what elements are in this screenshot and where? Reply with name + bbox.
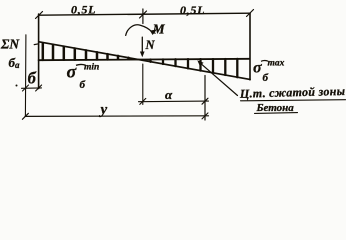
extension line at zero-stress point (142, 64, 144, 105)
svg-text:σ: σ (67, 62, 78, 82)
tick delta left (23, 85, 29, 91)
N arrowhead (140, 52, 145, 58)
svg-text:N: N (145, 38, 156, 52)
svg-text:Ц.т. сжатой зоны: Ц.т. сжатой зоны (239, 84, 346, 101)
neutral axis (39, 59, 250, 60)
right edge vertical (249, 13, 251, 80)
svg-text:0,5L: 0,5L (180, 3, 205, 17)
hatch right triangle (151, 59, 238, 77)
svg-text:б: б (28, 68, 37, 87)
svg-text:σ: σ (253, 59, 262, 76)
svg-text:б: б (263, 72, 269, 84)
a dimension line (139, 100, 209, 103)
ink speck (16, 85, 18, 87)
M arrowhead (150, 29, 157, 35)
tick left end (36, 12, 43, 19)
hatch left triangle (43, 44, 129, 60)
delta dimension line (22, 87, 42, 89)
extension line at centroid (204, 76, 206, 121)
tick middle (140, 9, 147, 24)
dimension line 0,5L top (39, 13, 250, 15)
svg-text:б: б (80, 79, 86, 91)
svg-text:0,5L: 0,5L (71, 2, 96, 16)
extension line left (delta/y reference) (24, 35, 27, 117)
svg-text:M: M (152, 21, 166, 36)
left edge vertical (38, 14, 40, 89)
svg-text:α: α (165, 87, 173, 102)
y dimension line (25, 115, 209, 118)
centroid marker (197, 60, 203, 66)
tick right end (247, 10, 254, 17)
tick a right (202, 98, 208, 104)
svg-text:ΣN: ΣN (0, 37, 20, 52)
tick delta right (36, 85, 42, 91)
tick a left (140, 98, 146, 104)
leader to centroid (199, 62, 238, 96)
underline line 1 (241, 100, 346, 101)
N force arrow shaft (141, 37, 143, 53)
svg-text:max: max (268, 58, 285, 68)
svg-text:y: y (99, 102, 108, 118)
stub tick on left edge (34, 43, 38, 46)
tick y left (22, 113, 28, 119)
svg-text:Бетона: Бетона (256, 102, 295, 114)
tick y right (202, 113, 208, 119)
stress slant line (39, 42, 250, 80)
moment arc M (126, 25, 152, 36)
underline line 2 (255, 112, 298, 115)
svg-text:min: min (84, 63, 99, 73)
